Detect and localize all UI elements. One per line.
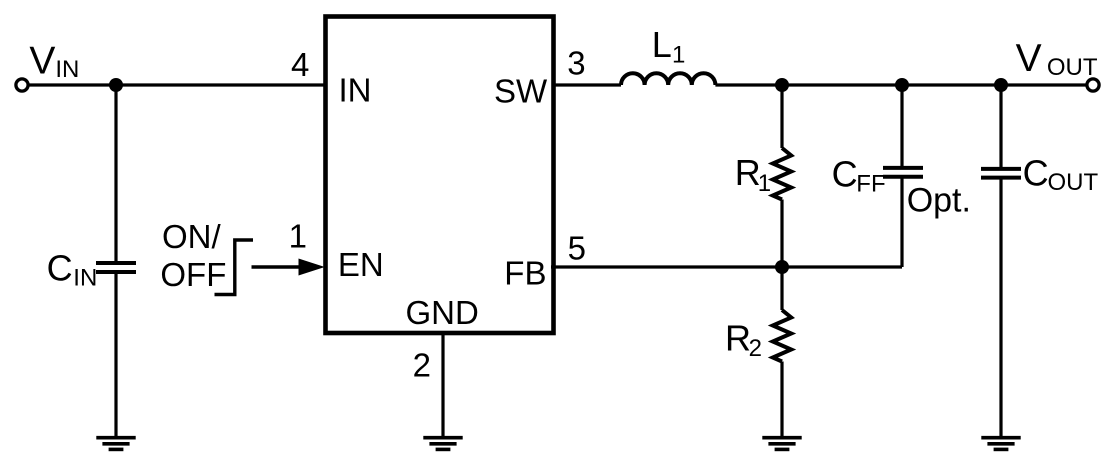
wire GND pin 2 lead: [441, 333, 444, 438]
node input junction: [109, 78, 123, 92]
wire SW pin to inductor: [553, 83, 621, 86]
wire output rail: [715, 83, 1086, 86]
capacitor CIN: [96, 263, 136, 272]
ground CIN: [96, 438, 135, 450]
svg-text:1: 1: [289, 217, 307, 254]
svg-text:5: 5: [568, 230, 586, 267]
svg-text:4: 4: [291, 46, 309, 83]
svg-text:L: L: [652, 24, 672, 65]
svg-text:C: C: [832, 153, 858, 194]
capacitor CFF: [883, 168, 923, 177]
svg-text:GND: GND: [406, 294, 479, 331]
svg-text:V: V: [29, 40, 55, 83]
svg-text:IN: IN: [55, 56, 79, 83]
wire CIN top lead: [114, 85, 117, 263]
svg-text:IN: IN: [339, 72, 372, 109]
svg-text:C: C: [1023, 152, 1049, 193]
svg-text:2: 2: [413, 346, 431, 383]
wire COUT top lead: [999, 85, 1002, 169]
wire VIN to IN pin: [29, 83, 326, 86]
terminal VIN: [16, 79, 28, 91]
svg-text:R: R: [725, 318, 751, 359]
resistor R2: [773, 310, 791, 362]
node CFF top: [895, 78, 909, 92]
wire CFF top lead: [900, 85, 903, 168]
wire R1 bottom lead: [780, 200, 783, 268]
svg-text:OUT: OUT: [1047, 54, 1098, 81]
IC U1 box: [326, 17, 554, 334]
svg-text:1: 1: [672, 42, 685, 69]
ground R2: [762, 438, 801, 450]
ON/OFF step symbol: [215, 240, 254, 295]
node R1 top: [775, 78, 789, 92]
node COUT top: [994, 78, 1008, 92]
ground COUT: [981, 438, 1020, 450]
svg-text:C: C: [47, 247, 73, 288]
svg-text:IN: IN: [73, 265, 97, 292]
svg-text:EN: EN: [338, 246, 384, 283]
svg-text:Opt.: Opt.: [907, 182, 971, 220]
svg-text:V: V: [1016, 37, 1042, 80]
svg-text:1: 1: [758, 170, 771, 197]
capacitor COUT: [981, 169, 1021, 178]
svg-text:ON/: ON/: [162, 218, 222, 255]
wire CFF bottom lead: [900, 177, 903, 267]
resistor R1: [773, 148, 791, 200]
svg-text:OUT: OUT: [1048, 169, 1099, 196]
svg-text:2: 2: [749, 335, 762, 362]
wire R2 top lead: [780, 267, 783, 310]
svg-text:FF: FF: [856, 171, 885, 198]
svg-text:FB: FB: [504, 254, 546, 291]
terminal VOUT: [1087, 79, 1099, 91]
wire R2 bottom lead: [780, 362, 783, 438]
inductor L1: [621, 73, 715, 85]
svg-text:SW: SW: [494, 72, 548, 109]
node FB junction: [775, 260, 789, 274]
ground GND pin: [423, 438, 462, 450]
wire COUT bottom lead: [999, 178, 1002, 438]
svg-text:3: 3: [567, 45, 585, 82]
svg-text:OFF: OFF: [160, 256, 226, 293]
wire CIN bottom lead: [114, 272, 117, 438]
wire R1 top lead: [780, 85, 783, 148]
arrow into EN pin 1: [252, 265, 304, 268]
wire FB to CFF: [551, 265, 902, 268]
